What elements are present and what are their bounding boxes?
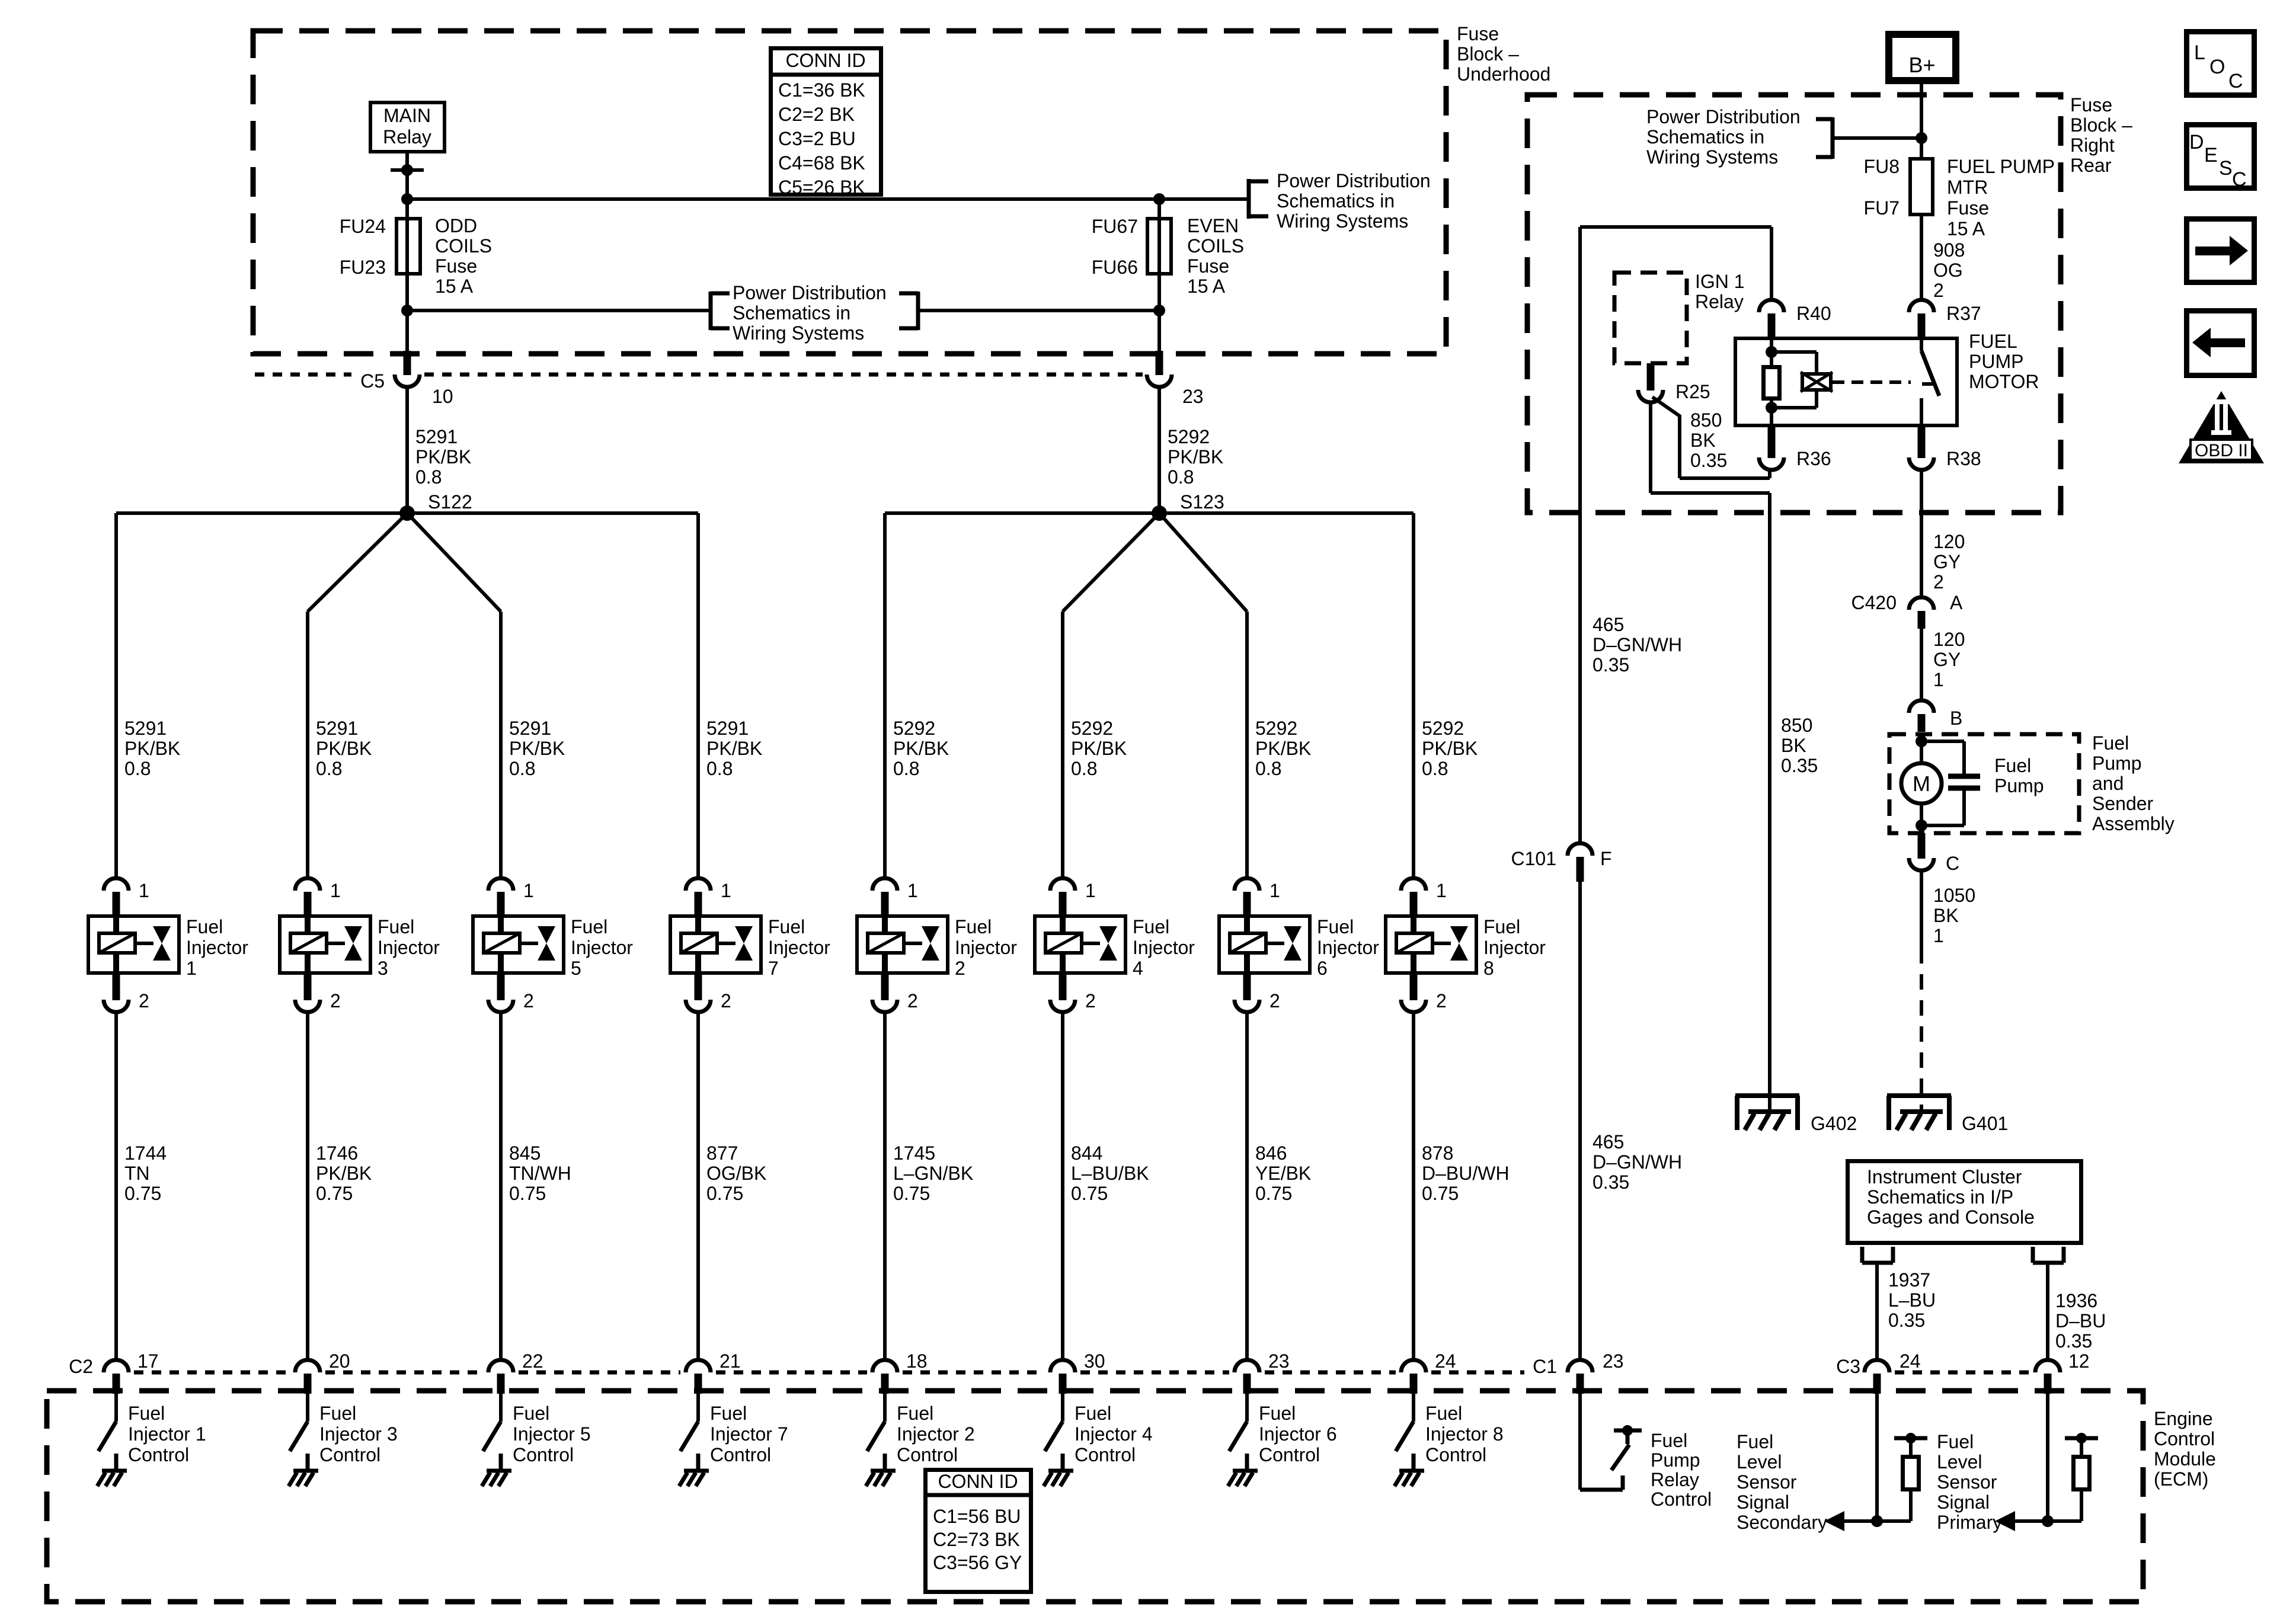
battery feed B+ bbox=[1889, 34, 1956, 81]
connector C101 pin F bbox=[1568, 843, 1593, 856]
svg-text:465: 465 bbox=[1593, 1131, 1624, 1153]
svg-text:Control: Control bbox=[128, 1444, 189, 1465]
ground fuel injector 8 control bbox=[1399, 1469, 1424, 1473]
svg-text:1: 1 bbox=[139, 880, 149, 901]
svg-text:1745: 1745 bbox=[893, 1142, 935, 1164]
svg-text:Assembly: Assembly bbox=[2092, 813, 2175, 834]
bracket lower power distribution left bbox=[709, 292, 713, 330]
svg-text:Underhood: Underhood bbox=[1457, 63, 1550, 85]
wire 5291 to injector 5 pin 1 bbox=[499, 612, 503, 878]
bracket lower power distribution right bbox=[916, 292, 920, 330]
svg-text:FU8: FU8 bbox=[1864, 156, 1900, 177]
connector pin 2 injector 1 bbox=[113, 975, 120, 1000]
svg-text:G401: G401 bbox=[1962, 1113, 2008, 1134]
svg-text:MTR: MTR bbox=[1947, 177, 1988, 198]
ground fuel injector 1 control bbox=[102, 1469, 127, 1473]
ECM pin 17 connector injector 1 bbox=[104, 1360, 129, 1372]
fuel pump capacitor bbox=[1921, 740, 1964, 743]
fuel injector 8 bbox=[1386, 916, 1476, 973]
svg-text:EVEN: EVEN bbox=[1187, 215, 1239, 236]
svg-text:0.8: 0.8 bbox=[124, 758, 151, 779]
svg-text:1: 1 bbox=[1269, 880, 1280, 901]
svg-text:1937: 1937 bbox=[1888, 1269, 1930, 1291]
svg-text:Fuel: Fuel bbox=[1483, 916, 1520, 937]
svg-text:L–BU/BK: L–BU/BK bbox=[1071, 1163, 1149, 1184]
svg-text:10: 10 bbox=[432, 386, 453, 407]
svg-text:Wiring Systems: Wiring Systems bbox=[1646, 146, 1778, 168]
svg-text:5291: 5291 bbox=[706, 718, 749, 739]
svg-text:R38: R38 bbox=[1946, 448, 1981, 469]
fuel pump and sender assembly dashed box bbox=[1889, 734, 2079, 833]
connector pin 1 injector 3 bbox=[295, 878, 320, 891]
svg-text:Injector: Injector bbox=[1133, 937, 1195, 958]
engine control module dashed box bbox=[47, 1391, 2143, 1602]
connector pin 2 injector 5 bbox=[497, 975, 505, 1000]
svg-text:C: C bbox=[2228, 70, 2243, 92]
ECM pin 20 connector injector 3 bbox=[295, 1360, 320, 1372]
svg-text:5291: 5291 bbox=[124, 718, 167, 739]
svg-text:Fuel: Fuel bbox=[955, 916, 992, 937]
ECM pin 22 connector injector 5 bbox=[488, 1360, 513, 1372]
svg-text:Fuel: Fuel bbox=[1133, 916, 1169, 937]
svg-text:Fuel: Fuel bbox=[1651, 1430, 1687, 1451]
svg-text:FU7: FU7 bbox=[1864, 197, 1900, 219]
svg-text:Fuel: Fuel bbox=[1317, 916, 1354, 937]
wire R25 to R36 jog bbox=[1652, 397, 1680, 416]
svg-text:IGN 1: IGN 1 bbox=[1695, 271, 1745, 292]
svg-text:2: 2 bbox=[1933, 571, 1944, 593]
svg-text:846: 846 bbox=[1255, 1142, 1287, 1164]
svg-text:Power Distribution: Power Distribution bbox=[1646, 106, 1801, 127]
svg-text:Wiring Systems: Wiring Systems bbox=[733, 322, 864, 344]
connector pin 2 injector 2 bbox=[881, 975, 889, 1000]
svg-text:Sensor: Sensor bbox=[1737, 1471, 1797, 1493]
instrument cluster box bbox=[1848, 1161, 2081, 1243]
svg-text:Control: Control bbox=[1425, 1444, 1486, 1465]
svg-text:Injector 7: Injector 7 bbox=[710, 1423, 788, 1445]
svg-text:CONN ID: CONN ID bbox=[938, 1471, 1018, 1492]
svg-text:PK/BK: PK/BK bbox=[316, 738, 372, 759]
svg-text:2: 2 bbox=[721, 990, 731, 1012]
svg-text:15 A: 15 A bbox=[435, 276, 474, 297]
ignition feed path to R40 bbox=[1578, 227, 1582, 843]
svg-text:Fuel: Fuel bbox=[128, 1403, 165, 1424]
fuel injector 1 bbox=[88, 916, 179, 973]
svg-text:F: F bbox=[1600, 848, 1612, 869]
wire 1937 L-BU bbox=[1875, 1263, 1879, 1360]
connector C420 pin A bbox=[1909, 597, 1934, 610]
svg-text:FU24: FU24 bbox=[340, 216, 386, 237]
svg-text:Injector 3: Injector 3 bbox=[319, 1423, 398, 1445]
svg-text:Block –: Block – bbox=[1457, 43, 1519, 65]
wire from MAIN relay down bbox=[405, 153, 409, 351]
svg-text:0.35: 0.35 bbox=[1593, 1172, 1629, 1193]
IGN 1 relay dashed box bbox=[1614, 273, 1687, 363]
fuel injector 7 bbox=[670, 916, 761, 973]
fuel level sensor signal secondary circuit bbox=[1875, 1394, 1879, 1521]
top CONN ID table bbox=[771, 49, 881, 195]
svg-text:E: E bbox=[2204, 144, 2218, 167]
svg-text:COILS: COILS bbox=[435, 235, 492, 257]
splice S123 bbox=[885, 511, 1414, 515]
svg-text:24: 24 bbox=[1900, 1350, 1921, 1372]
wire 465 D-GN/WH to ECM bbox=[1578, 882, 1582, 1360]
svg-text:23: 23 bbox=[1603, 1350, 1624, 1372]
next arrow legend box bbox=[2187, 219, 2255, 283]
svg-text:OBD II: OBD II bbox=[2195, 441, 2248, 460]
svg-text:0.8: 0.8 bbox=[415, 466, 442, 488]
fuse FU67/FU66 EVEN COILS bbox=[1147, 219, 1171, 274]
MAIN Relay box bbox=[370, 103, 445, 152]
svg-text:0.8: 0.8 bbox=[509, 758, 535, 779]
svg-text:A: A bbox=[1950, 592, 1963, 613]
svg-text:BK: BK bbox=[1781, 735, 1806, 756]
ground fuel injector 7 control bbox=[684, 1469, 709, 1473]
svg-text:2: 2 bbox=[523, 990, 534, 1012]
fuel pump motor relay box bbox=[1735, 338, 1957, 425]
svg-text:Fuel: Fuel bbox=[710, 1403, 747, 1424]
svg-text:S122: S122 bbox=[428, 491, 472, 513]
svg-text:C3=56 GY: C3=56 GY bbox=[933, 1552, 1022, 1573]
svg-text:Pump: Pump bbox=[1994, 775, 2044, 796]
wire bracket to B+ wire bbox=[1833, 136, 1921, 140]
svg-text:FUEL: FUEL bbox=[1969, 331, 2017, 352]
svg-text:850: 850 bbox=[1781, 715, 1812, 736]
svg-text:0.35: 0.35 bbox=[1781, 755, 1818, 776]
svg-text:D–BU: D–BU bbox=[2055, 1310, 2106, 1331]
fuel injector 4 control switch bbox=[1061, 1394, 1064, 1422]
svg-text:Schematics in: Schematics in bbox=[1277, 190, 1395, 212]
fuel injector 3 bbox=[280, 916, 370, 973]
svg-text:4: 4 bbox=[1133, 958, 1143, 979]
svg-text:D–GN/WH: D–GN/WH bbox=[1593, 1151, 1682, 1173]
connector pin 1 injector 1 bbox=[104, 878, 129, 891]
svg-text:Injector: Injector bbox=[955, 937, 1017, 958]
fuel injector 1 control switch bbox=[114, 1394, 118, 1422]
svg-text:1: 1 bbox=[721, 880, 731, 901]
svg-text:0.8: 0.8 bbox=[1255, 758, 1281, 779]
DESC legend box bbox=[2187, 125, 2255, 188]
fuel injector 5 bbox=[473, 916, 564, 973]
svg-text:C5: C5 bbox=[360, 370, 385, 392]
svg-text:Injector 5: Injector 5 bbox=[513, 1423, 591, 1445]
svg-text:PUMP: PUMP bbox=[1969, 351, 2023, 372]
svg-text:Fuel: Fuel bbox=[768, 916, 805, 937]
svg-text:PK/BK: PK/BK bbox=[1255, 738, 1311, 759]
fuel injector 3 control switch bbox=[306, 1394, 309, 1422]
svg-text:Control: Control bbox=[897, 1444, 958, 1465]
relay terminal R25 bbox=[1647, 363, 1655, 391]
wire 5292 to injector 6 pin 1 bbox=[1245, 612, 1249, 878]
ECM pin 24 connector injector 8 bbox=[1401, 1360, 1426, 1372]
node at FU24 top bbox=[401, 193, 413, 205]
fuse FU8/FU7 FUEL PUMP MTR bbox=[1910, 159, 1933, 215]
connector pin 2 injector 3 bbox=[304, 975, 312, 1000]
svg-text:Gages and Console: Gages and Console bbox=[1867, 1206, 2035, 1228]
svg-text:20: 20 bbox=[329, 1350, 350, 1372]
svg-text:5292: 5292 bbox=[1168, 426, 1210, 447]
connector pin 2 injector 6 bbox=[1243, 975, 1251, 1000]
relay terminal R38 bbox=[1918, 427, 1926, 458]
svg-text:844: 844 bbox=[1071, 1142, 1102, 1164]
svg-text:R37: R37 bbox=[1946, 303, 1981, 324]
svg-text:R25: R25 bbox=[1675, 381, 1710, 402]
svg-text:Fuse: Fuse bbox=[1187, 255, 1229, 277]
fuel injector 8 control switch bbox=[1412, 1394, 1415, 1422]
node at FU67 top bbox=[1153, 193, 1165, 205]
svg-text:22: 22 bbox=[522, 1350, 543, 1372]
svg-text:Wiring Systems: Wiring Systems bbox=[1277, 210, 1408, 232]
svg-text:120: 120 bbox=[1933, 629, 1965, 650]
svg-text:0.8: 0.8 bbox=[1422, 758, 1448, 779]
svg-text:Primary: Primary bbox=[1937, 1512, 2002, 1533]
node below FU66 bbox=[1153, 305, 1165, 316]
node below FU23 bbox=[401, 305, 413, 316]
relay solenoid symbol bbox=[1802, 374, 1831, 390]
svg-text:Signal: Signal bbox=[1937, 1491, 1990, 1513]
svg-text:1: 1 bbox=[1933, 925, 1944, 946]
ECM pin 30 connector injector 4 bbox=[1050, 1360, 1075, 1372]
svg-text:1: 1 bbox=[523, 880, 534, 901]
wire from bracket to FU66 bbox=[918, 309, 1159, 312]
svg-text:Injector 2: Injector 2 bbox=[897, 1423, 975, 1445]
svg-text:0.8: 0.8 bbox=[1168, 466, 1194, 488]
svg-text:L–BU: L–BU bbox=[1888, 1289, 1936, 1311]
svg-text:PK/BK: PK/BK bbox=[124, 738, 180, 759]
svg-text:FU66: FU66 bbox=[1092, 257, 1138, 278]
LOC legend box bbox=[2187, 32, 2255, 95]
fuel injector 6 control switch bbox=[1245, 1394, 1249, 1422]
instrument cluster bracket left bbox=[1860, 1247, 1865, 1263]
svg-text:Fuse: Fuse bbox=[435, 255, 477, 277]
svg-text:FUEL PUMP: FUEL PUMP bbox=[1947, 156, 2055, 177]
svg-text:D–BU/WH: D–BU/WH bbox=[1422, 1163, 1510, 1184]
svg-text:Right: Right bbox=[2070, 135, 2115, 156]
svg-text:0.75: 0.75 bbox=[124, 1183, 161, 1204]
svg-text:Signal: Signal bbox=[1737, 1491, 1789, 1513]
ECM connector C3 pin 12 bbox=[2035, 1360, 2060, 1372]
wire below FU23 bbox=[405, 276, 409, 351]
relay terminal R40 bbox=[1759, 300, 1784, 312]
svg-text:0.8: 0.8 bbox=[316, 758, 342, 779]
fuel pump motor M bbox=[1916, 735, 1927, 747]
wire 850 BK to G402 bbox=[1768, 493, 1771, 1112]
wire to lower power distribution bracket left bbox=[407, 309, 711, 312]
wire 5291 from C5 to S122 bbox=[405, 386, 409, 513]
svg-text:Fuel: Fuel bbox=[1937, 1431, 1974, 1452]
svg-text:1: 1 bbox=[1085, 880, 1096, 901]
svg-text:PK/BK: PK/BK bbox=[1071, 738, 1127, 759]
wire 1744 injector 1 control bbox=[114, 1012, 118, 1360]
ECM connector C3 pin 24 bbox=[1865, 1360, 1889, 1372]
svg-text:21: 21 bbox=[720, 1350, 741, 1372]
fuel pump relay control driver bbox=[1578, 1394, 1582, 1490]
svg-text:L: L bbox=[2194, 41, 2205, 64]
svg-text:S123: S123 bbox=[1180, 491, 1224, 513]
svg-text:Relay: Relay bbox=[1651, 1469, 1699, 1490]
wire 1936 D-BU bbox=[2046, 1263, 2049, 1360]
wire 1745 injector 2 control bbox=[883, 1012, 887, 1360]
svg-text:M: M bbox=[1913, 772, 1930, 796]
ground fuel injector 5 control bbox=[487, 1469, 511, 1473]
relay switch bbox=[1920, 337, 1923, 351]
svg-text:Fuel: Fuel bbox=[2092, 732, 2129, 754]
svg-text:2: 2 bbox=[907, 990, 918, 1012]
splice S122 bbox=[116, 511, 698, 515]
svg-text:Injector: Injector bbox=[1317, 937, 1379, 958]
connector pin 1 injector 8 bbox=[1401, 878, 1426, 891]
svg-text:Control: Control bbox=[2154, 1428, 2215, 1449]
svg-text:C101: C101 bbox=[1511, 848, 1557, 869]
svg-text:(ECM): (ECM) bbox=[2154, 1468, 2208, 1490]
wire 5291 to injector 1 pin 1 bbox=[114, 513, 118, 878]
instrument cluster bracket right bbox=[2031, 1247, 2035, 1263]
svg-text:1746: 1746 bbox=[316, 1142, 358, 1164]
fuel injector 6 bbox=[1219, 916, 1310, 973]
fuse block right rear dashed box bbox=[1527, 95, 2061, 513]
wire 846 injector 6 control bbox=[1245, 1012, 1249, 1360]
svg-text:0.75: 0.75 bbox=[1422, 1183, 1459, 1204]
svg-text:Fuel: Fuel bbox=[1259, 1403, 1296, 1424]
svg-text:Fuse: Fuse bbox=[1457, 23, 1499, 44]
wire to even coils fuse and power distribution bracket bbox=[407, 197, 1249, 201]
back arrow legend box bbox=[2187, 311, 2255, 376]
svg-text:R36: R36 bbox=[1796, 448, 1831, 469]
OBD II symbol bbox=[2179, 391, 2264, 463]
svg-text:BK: BK bbox=[1933, 905, 1959, 926]
ground fuel injector 6 control bbox=[1233, 1469, 1258, 1473]
svg-text:Fuel: Fuel bbox=[513, 1403, 549, 1424]
svg-text:C420: C420 bbox=[1851, 592, 1897, 613]
fuel injector 5 control switch bbox=[499, 1394, 503, 1422]
svg-text:0.8: 0.8 bbox=[893, 758, 919, 779]
svg-text:7: 7 bbox=[768, 958, 779, 979]
svg-text:FU23: FU23 bbox=[340, 257, 386, 278]
svg-text:908: 908 bbox=[1933, 239, 1965, 261]
ECM connector C1 pin 23 bbox=[1568, 1360, 1593, 1372]
svg-text:MAIN: MAIN bbox=[383, 105, 431, 126]
ECM connector dotted line bbox=[134, 1371, 1524, 1375]
relay mechanical link dashed bbox=[1833, 380, 1911, 384]
svg-text:TN: TN bbox=[124, 1163, 150, 1184]
wire 5292 to injector 8 pin 1 bbox=[1412, 513, 1415, 878]
svg-text:0.35: 0.35 bbox=[1690, 450, 1727, 471]
svg-text:PK/BK: PK/BK bbox=[1422, 738, 1478, 759]
svg-text:850: 850 bbox=[1690, 409, 1722, 431]
svg-text:Schematics in I/P: Schematics in I/P bbox=[1867, 1186, 2013, 1208]
svg-text:845: 845 bbox=[509, 1142, 541, 1164]
svg-text:Control: Control bbox=[1075, 1444, 1136, 1465]
svg-text:Block –: Block – bbox=[2070, 114, 2132, 136]
svg-text:2: 2 bbox=[1269, 990, 1280, 1012]
svg-text:2: 2 bbox=[1933, 280, 1944, 301]
svg-text:Injector: Injector bbox=[378, 937, 440, 958]
svg-text:465: 465 bbox=[1593, 614, 1624, 635]
svg-text:23: 23 bbox=[1268, 1350, 1290, 1372]
connector pin 2 injector 4 bbox=[1059, 975, 1067, 1000]
svg-text:B: B bbox=[1950, 708, 1962, 729]
bracket upper power distribution label bbox=[1247, 179, 1251, 219]
svg-text:Injector: Injector bbox=[1483, 937, 1546, 958]
svg-text:5292: 5292 bbox=[1255, 718, 1297, 739]
svg-text:0.8: 0.8 bbox=[706, 758, 733, 779]
svg-text:PK/BK: PK/BK bbox=[415, 446, 471, 468]
relay coil branch bbox=[1770, 337, 1773, 365]
svg-text:Relay: Relay bbox=[1695, 291, 1744, 312]
wire 878 injector 8 control bbox=[1412, 1012, 1415, 1360]
wire 120 GY 2 from R38 to C420 bbox=[1920, 469, 1923, 597]
svg-text:5291: 5291 bbox=[415, 426, 458, 447]
svg-text:OG/BK: OG/BK bbox=[706, 1163, 766, 1184]
ground fuel injector 2 control bbox=[871, 1469, 896, 1473]
wire 5291 to injector 3 pin 1 bbox=[306, 612, 309, 878]
svg-text:0.75: 0.75 bbox=[316, 1183, 353, 1204]
svg-text:23: 23 bbox=[1182, 386, 1204, 407]
connector pin 1 injector 6 bbox=[1235, 878, 1259, 891]
connector B bbox=[1909, 700, 1934, 713]
svg-text:12: 12 bbox=[2068, 1350, 2090, 1372]
svg-text:C4=68 BK: C4=68 BK bbox=[778, 152, 865, 174]
ECM pin 18 connector injector 2 bbox=[872, 1360, 897, 1372]
wire 1050 BK 1 bbox=[1920, 870, 1923, 948]
svg-text:Injector 8: Injector 8 bbox=[1425, 1423, 1504, 1445]
C3 dotted line bbox=[1895, 1371, 2030, 1375]
svg-text:Injector 1: Injector 1 bbox=[128, 1423, 206, 1445]
svg-text:2: 2 bbox=[330, 990, 341, 1012]
fuel level sensor signal primary circuit bbox=[2046, 1394, 2049, 1521]
svg-text:PK/BK: PK/BK bbox=[706, 738, 762, 759]
svg-text:0.75: 0.75 bbox=[509, 1183, 546, 1204]
wire 5291 to injector 7 pin 1 bbox=[696, 513, 700, 878]
svg-text:CONN ID: CONN ID bbox=[785, 50, 865, 71]
wire 845 injector 5 control bbox=[499, 1012, 503, 1360]
svg-text:877: 877 bbox=[706, 1142, 738, 1164]
svg-text:1: 1 bbox=[907, 880, 918, 901]
svg-text:Sensor: Sensor bbox=[1937, 1471, 1997, 1493]
svg-text:B+: B+ bbox=[1908, 53, 1935, 77]
svg-text:Level: Level bbox=[1937, 1451, 1982, 1473]
svg-text:Control: Control bbox=[1651, 1489, 1712, 1510]
svg-text:Control: Control bbox=[710, 1444, 771, 1465]
svg-text:5292: 5292 bbox=[1071, 718, 1113, 739]
svg-text:24: 24 bbox=[1435, 1350, 1456, 1372]
ECM pin 21 connector injector 7 bbox=[686, 1360, 711, 1372]
connector C5 pin 10 bbox=[404, 351, 411, 375]
svg-text:Fuel: Fuel bbox=[897, 1403, 933, 1424]
svg-text:Fuel: Fuel bbox=[1075, 1403, 1111, 1424]
svg-text:FU67: FU67 bbox=[1092, 216, 1138, 237]
svg-text:and: and bbox=[2092, 773, 2124, 794]
svg-text:PK/BK: PK/BK bbox=[316, 1163, 372, 1184]
svg-text:2: 2 bbox=[139, 990, 149, 1012]
svg-text:2: 2 bbox=[1436, 990, 1447, 1012]
svg-text:C: C bbox=[2232, 168, 2247, 191]
svg-text:C1=56 BU: C1=56 BU bbox=[933, 1506, 1021, 1527]
wire from B+ to FU8 bbox=[1920, 81, 1923, 157]
svg-text:Control: Control bbox=[513, 1444, 574, 1465]
svg-text:Engine: Engine bbox=[2154, 1408, 2213, 1429]
svg-text:C2: C2 bbox=[69, 1356, 93, 1377]
ground G401 bbox=[1887, 1093, 1951, 1098]
svg-text:C1=36 BK: C1=36 BK bbox=[778, 79, 865, 101]
connector C bbox=[1918, 833, 1926, 859]
svg-text:17: 17 bbox=[137, 1350, 159, 1372]
svg-text:5: 5 bbox=[571, 958, 581, 979]
wire 877 injector 7 control bbox=[696, 1012, 700, 1360]
wire 1746 injector 3 control bbox=[306, 1012, 309, 1360]
svg-text:BK: BK bbox=[1690, 430, 1716, 451]
fuel injector 2 bbox=[857, 916, 948, 973]
